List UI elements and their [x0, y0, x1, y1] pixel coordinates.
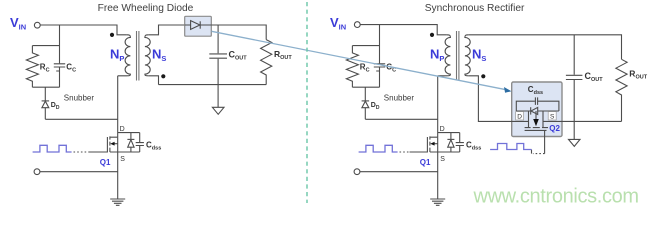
wire secondary top to diode: [149, 25, 185, 35]
svg-text:S: S: [440, 156, 445, 163]
terminal VIN (left): [34, 22, 40, 28]
resistor RC: [26, 46, 38, 88]
transformer T1 primary winding: [118, 35, 131, 76]
transistor Q1 (left): [90, 136, 140, 152]
diode DD (right): [362, 87, 370, 119]
terminal return (right): [354, 169, 360, 175]
resistor ROUT (right): [616, 59, 627, 121]
label D (Q2 drain): [516, 112, 524, 121]
resistor RC (right): [346, 46, 358, 88]
wire VIN rail to primary (right): [360, 25, 446, 35]
transformer T1 core: [137, 31, 139, 81]
wire drain vertical (right): [437, 76, 439, 137]
wire waveform step (Q2): [531, 150, 533, 154]
capacitor COUT (left): [209, 25, 227, 107]
dot primary polarity (right): [430, 33, 434, 37]
wire Q1 source down (left): [117, 152, 119, 199]
diode DD: [42, 87, 50, 119]
ground GND (right): [430, 199, 445, 205]
capacitor CC branch wire: [59, 25, 61, 87]
transistor Q2: [525, 111, 548, 154]
resistor ROUT (left): [261, 40, 272, 85]
divider dashed line: [306, 2, 308, 203]
capacitor CC plates: [54, 64, 65, 71]
wire diode to ROUT top: [211, 25, 266, 40]
svg-text:Snubber: Snubber: [64, 94, 95, 103]
transformer T2 secondary winding: [465, 35, 470, 76]
capacitor CC branch wire (right): [379, 25, 381, 88]
wire secondary top rail (right): [469, 35, 622, 60]
highlight box around diode D1: [185, 16, 212, 36]
capacitor Cdss (Q2 box): [516, 97, 559, 111]
svg-text:D: D: [517, 114, 522, 121]
wire output bottom rail (left): [149, 76, 267, 85]
svg-text:D: D: [120, 126, 125, 133]
transformer T1 secondary winding: [145, 35, 150, 76]
label S (Q2 source): [548, 112, 556, 121]
dot secondary polarity (right): [481, 74, 485, 78]
diode body of Q1 (left): [118, 133, 140, 152]
wire snubber to drain rail (right): [365, 118, 437, 120]
transformer T2 primary winding: [438, 35, 451, 76]
ground earth (right output): [569, 139, 581, 146]
dot primary polarity (left): [110, 33, 114, 37]
wire return rail (left): [40, 171, 118, 173]
wire snubber to drain rail: [45, 118, 117, 120]
diode body of Q1 (right): [438, 133, 460, 152]
waveform gate drive (right Q1): [359, 145, 398, 152]
wire Q1 source down (right): [437, 152, 439, 199]
ground GND (left): [110, 199, 125, 205]
wire secondary bottom into box (right): [469, 76, 529, 122]
capacitor CC plates (right): [374, 64, 385, 71]
svg-text:www.cntronics.com: www.cntronics.com: [473, 186, 639, 208]
terminal return (left): [34, 169, 40, 175]
wire VIN rail to primary: [40, 25, 126, 35]
capacitor Cdss (left): [136, 133, 144, 152]
svg-text:Synchronous Rectifier: Synchronous Rectifier: [425, 3, 525, 14]
capacitor COUT (right): [566, 35, 583, 140]
svg-text:Q1: Q1: [100, 158, 111, 167]
node snubber bottom rail (right): [352, 86, 379, 88]
wire dotted gate link (left): [74, 151, 90, 153]
node snubber bottom rail: [32, 86, 59, 88]
pointer arrow diode to Q2: [212, 31, 512, 93]
svg-text:Free Wheeling Diode: Free Wheeling Diode: [98, 3, 194, 14]
svg-text:Q1: Q1: [420, 158, 431, 167]
svg-text:Q2: Q2: [549, 124, 560, 133]
waveform gate drive (left): [33, 145, 72, 152]
node snubber top rail (right): [352, 45, 379, 47]
node snubber top rail: [32, 45, 59, 47]
wire box to ROUT bottom rail (right): [543, 120, 622, 122]
capacitor Cdss (right Q1): [456, 133, 464, 152]
transformer T2 core: [457, 31, 459, 81]
diode body of Q2: [516, 107, 559, 114]
terminal VIN (right): [354, 22, 360, 28]
transistor Q1 (right): [410, 136, 460, 152]
svg-text:Snubber: Snubber: [384, 94, 415, 103]
highlight box around Q2: [512, 82, 562, 137]
diode D1 free wheeling: [185, 21, 212, 30]
wire dotted gate link (Q2): [533, 153, 545, 155]
wire drain vertical: [117, 76, 119, 137]
svg-text:S: S: [550, 114, 555, 121]
wire return rail (right): [360, 171, 438, 173]
wire dotted gate link (right Q1): [400, 151, 410, 153]
ground earth (left output): [212, 107, 224, 114]
waveform gate drive (Q2): [490, 144, 531, 150]
dot secondary polarity (left): [161, 74, 165, 78]
svg-text:D: D: [440, 126, 445, 133]
svg-text:S: S: [120, 156, 125, 163]
